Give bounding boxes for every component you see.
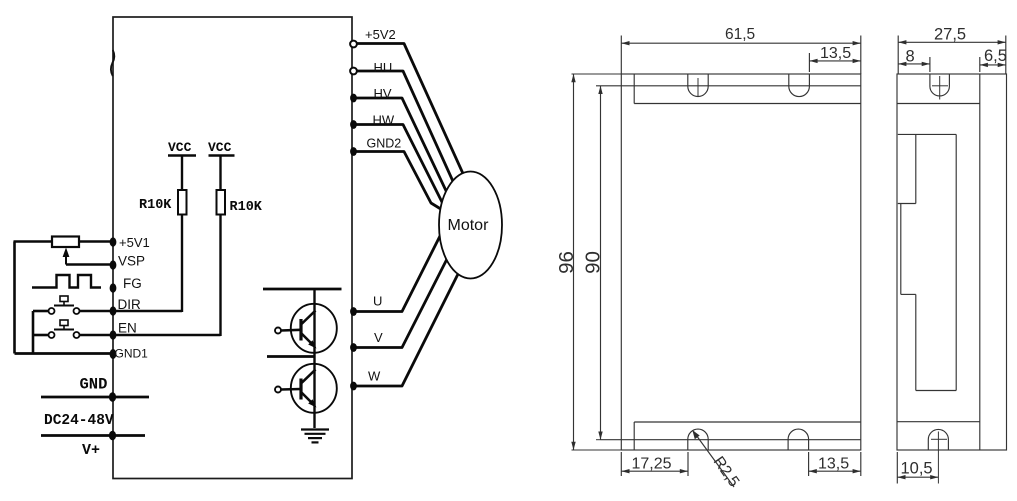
svg-text:96: 96 [555, 251, 578, 274]
junction node on GND bus [109, 392, 116, 402]
front view bottom slot 2 [788, 429, 809, 450]
pushbutton S1 (DIR) contacts [49, 308, 80, 314]
svg-text:GND2: GND2 [367, 137, 402, 151]
wire: V+ bus line [41, 434, 145, 437]
ground symbol [301, 430, 329, 443]
transistor Q1 emitter diagonal with arrow [302, 334, 317, 349]
wire: R1 down to DIR net [181, 215, 183, 313]
transistor Q2 base terminal circle [275, 387, 281, 393]
wire: HU to motor [352, 71, 456, 188]
svg-text:VCC: VCC [168, 140, 192, 155]
resistor R2 body [217, 190, 226, 215]
svg-text:EN: EN [118, 321, 137, 336]
transistor Q2 emitter diagonal with arrow [302, 393, 317, 408]
pin DIR [110, 297, 141, 316]
svg-text:90: 90 [582, 251, 605, 274]
VCC symbol 1 [168, 140, 196, 156]
transistor Q1 circle [291, 304, 337, 353]
svg-text:U: U [373, 294, 382, 309]
side view top slot centerline [932, 76, 948, 100]
transistor Q2 circle [291, 364, 337, 413]
svg-text:R2,5: R2,5 [710, 454, 743, 491]
pin +5V1 [110, 235, 150, 250]
label DC24-48V [44, 413, 114, 429]
dimension 61,5 [621, 26, 861, 74]
label V+ [82, 442, 100, 459]
pin HV [350, 86, 392, 102]
svg-text:GND1: GND1 [115, 347, 149, 361]
transistor Q2 collector diagonal [302, 370, 316, 384]
pin FG [110, 276, 142, 293]
dimension 17,25 [621, 452, 688, 476]
wire: potentiometer to +5V1 pin [79, 240, 113, 243]
wire: HV to motor [352, 98, 449, 197]
wire: Q1 base lead [281, 328, 301, 331]
transistor Q1 base terminal circle [275, 328, 281, 334]
svg-text:8: 8 [906, 48, 915, 66]
front view top slot 1 centerline [697, 78, 699, 97]
side view top slot [930, 74, 950, 96]
dimension 6,5 [980, 47, 1007, 72]
pin GND2 [350, 137, 401, 156]
label R10K (R2) [230, 200, 263, 215]
svg-text:FG: FG [123, 276, 142, 291]
wire: S2 to EN pin and inside box to R2 [80, 334, 221, 337]
potentiometer RP1 body [52, 237, 79, 248]
side view top inner edge line [897, 103, 980, 105]
leader R2,5 [692, 430, 742, 490]
pin V [350, 330, 383, 352]
svg-text:HW: HW [373, 113, 395, 128]
dimension 13,5 top [809, 45, 860, 72]
pushbutton S1 actuator [54, 296, 74, 306]
resistor R2 10K stem from VCC [219, 156, 221, 191]
wire: R2 down to EN net [219, 215, 221, 337]
pin VSP [110, 254, 145, 270]
wire: collector top rail of output stage [263, 288, 342, 291]
svg-text:DC24-48V: DC24-48V [44, 413, 114, 429]
potentiometer wiper arrow [63, 248, 70, 265]
dimension 13,5 bottom [809, 452, 861, 476]
side view bottom slot [928, 429, 948, 449]
pin HU [350, 60, 392, 75]
wire: S2 left to common vertical [33, 334, 49, 337]
wire: W to motor [352, 270, 460, 386]
svg-text:VSP: VSP [118, 254, 145, 269]
wire: V to motor [352, 257, 448, 348]
pin EN [110, 321, 137, 340]
wire: mid rail between Q1 and Q2 [267, 355, 315, 358]
side view outer outline [897, 74, 1007, 450]
pin U [350, 294, 382, 316]
wire: GND2 to motor [352, 152, 444, 212]
pin W [350, 369, 381, 391]
svg-text:HV: HV [374, 86, 392, 101]
svg-text:V: V [374, 330, 383, 345]
svg-text:61,5: 61,5 [725, 26, 755, 43]
VCC symbol 2 [208, 140, 235, 156]
FG square-wave symbol [32, 275, 101, 288]
svg-text:17,25: 17,25 [632, 456, 672, 473]
transistor Q1 collector diagonal [302, 311, 316, 325]
wire: +5V1 horizontal from bus to potentiometer [14, 240, 53, 243]
resistor R1 10K stem from VCC [181, 156, 183, 191]
svg-text:R10K: R10K [139, 198, 172, 213]
wire: S1 to DIR pin and inside box to R1 [80, 310, 183, 313]
junction node on V+ bus [109, 431, 116, 441]
pin HW [350, 113, 395, 129]
side view inner vertical line [979, 74, 981, 450]
label GND [80, 376, 108, 394]
wire: common vertical of switches down to GND1 wire [32, 311, 35, 354]
resistor R1 body [178, 190, 187, 215]
wire: vertical main line through Q1 Q2 to ground [313, 289, 315, 428]
front view bottom lip edge line [601, 439, 861, 441]
wire: U to motor [352, 234, 441, 312]
dimension 96 [555, 74, 621, 450]
wire: HW to motor [352, 125, 444, 207]
front view inner left step vertical (top) [633, 74, 635, 104]
driver box U1 [113, 17, 352, 479]
wire: left vertical bus from +5V1 wire to GND1 wire [13, 242, 16, 354]
wire: wiper to VSP pin [66, 263, 113, 266]
pin GND1 [110, 347, 149, 361]
svg-text:6,5: 6,5 [984, 47, 1007, 65]
pushbutton S2 actuator [54, 320, 74, 330]
motor M1 [439, 172, 502, 279]
pushbutton S2 (EN) contacts [49, 332, 80, 338]
front view inner top edge line [634, 103, 861, 105]
svg-text:V+: V+ [82, 442, 100, 459]
front view top lip edge line [596, 85, 861, 87]
front view outer outline [621, 74, 861, 450]
front view top slot 2 [789, 74, 810, 97]
wire: GND1 horizontal [15, 352, 114, 355]
wire: Q2 base lead [281, 388, 301, 391]
svg-text:13,5: 13,5 [820, 45, 851, 62]
transistor Q2 base bar [299, 379, 302, 400]
svg-text:27,5: 27,5 [934, 25, 966, 43]
front view inner bottom edge line [634, 421, 861, 423]
side view bottom slot centerline [931, 432, 947, 484]
transistor Q1 base bar [299, 319, 302, 341]
svg-text:+5V2: +5V2 [365, 27, 396, 42]
front view top slot 1 [688, 74, 708, 97]
svg-text:DIR: DIR [118, 297, 142, 312]
side view bottom inner edge line [897, 421, 980, 423]
svg-text:W: W [368, 369, 381, 384]
dimension 90 [582, 86, 605, 440]
svg-text:10,5: 10,5 [901, 460, 933, 478]
label R10K (R1) [139, 198, 172, 213]
svg-text:R10K: R10K [230, 200, 263, 215]
dimension 10,5 [897, 452, 938, 484]
wire: S1 left to common vertical [33, 310, 49, 313]
pin +5V2 [350, 27, 396, 47]
side view inner profile (PCB/connector outline) [898, 134, 956, 390]
svg-text:VCC: VCC [208, 140, 232, 155]
svg-text:GND: GND [80, 376, 108, 394]
wire: GND bus line [41, 396, 149, 399]
svg-text:Motor: Motor [448, 217, 490, 234]
front view bottom slot 1 [688, 429, 708, 450]
wire: +5V2 to motor [352, 44, 465, 179]
scan squiggle artifact on box left edge [111, 50, 114, 76]
svg-text:+5V1: +5V1 [119, 235, 150, 250]
dimension 27,5 [898, 25, 1006, 74]
front view inner left step vertical (bottom) [633, 422, 635, 450]
dimension 8 [898, 48, 930, 73]
svg-text:HU: HU [374, 60, 393, 75]
svg-text:13,5: 13,5 [818, 456, 849, 473]
